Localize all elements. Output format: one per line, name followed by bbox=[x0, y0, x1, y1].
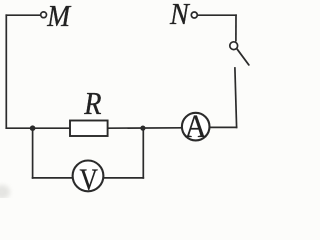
node junction dot left bbox=[30, 125, 36, 131]
scan smudge bottom-left bbox=[0, 185, 10, 199]
wire main horizontal left segment bbox=[6, 127, 70, 129]
voltmeter V circle bbox=[73, 161, 104, 192]
wire main horizontal middle segment bbox=[108, 127, 182, 129]
terminal M circle bbox=[41, 12, 47, 18]
svg-text:R: R bbox=[83, 86, 101, 121]
switch S pivot circle bbox=[230, 42, 238, 50]
wire voltmeter branch bottom-left horizontal bbox=[33, 177, 73, 179]
wire left vertical bbox=[5, 15, 7, 128]
ammeter A circle bbox=[182, 113, 210, 141]
switch blade bbox=[237, 49, 249, 65]
svg-text:N: N bbox=[169, 0, 191, 31]
svg-text:A: A bbox=[185, 109, 207, 145]
resistor R box bbox=[70, 121, 108, 137]
svg-text:V: V bbox=[80, 163, 98, 197]
wire voltmeter branch left vertical bbox=[32, 128, 34, 178]
wire right vertical upper bbox=[235, 15, 237, 40]
svg-text:M: M bbox=[46, 0, 72, 33]
wire right vertical lower bbox=[235, 68, 237, 127]
wire top-right horizontal bbox=[198, 14, 237, 16]
wire voltmeter branch right vertical bbox=[142, 128, 144, 178]
terminal N circle bbox=[191, 12, 197, 18]
wire voltmeter branch bottom-right horizontal bbox=[104, 177, 143, 179]
wire top-left horizontal bbox=[6, 14, 40, 16]
wire ammeter to right corner bbox=[210, 126, 236, 128]
node junction dot right bbox=[140, 126, 145, 131]
